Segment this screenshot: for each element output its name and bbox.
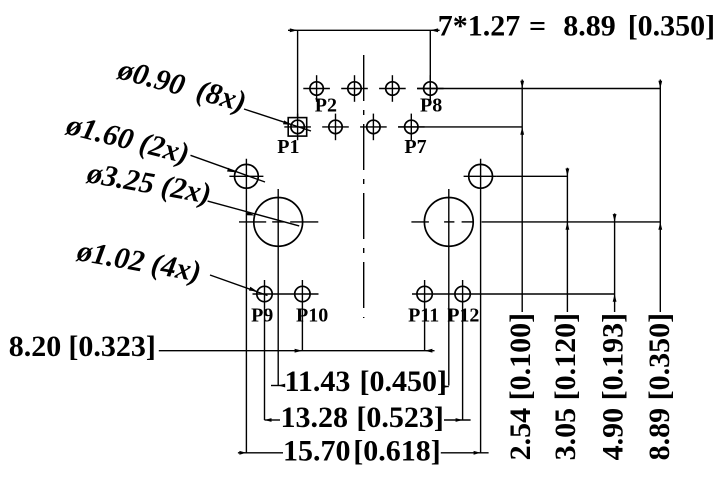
svg-text:13.28: 13.28 xyxy=(281,401,349,434)
svg-text:8.20: 8.20 xyxy=(9,330,62,363)
extension line P11 column xyxy=(424,308,426,351)
extension line right 1.60 column xyxy=(480,159,482,453)
extension line P8 column xyxy=(429,30,431,102)
dim 13.28 right arrow xyxy=(456,418,463,422)
svg-text:ø1.02 (4x): ø1.02 (4x) xyxy=(74,234,204,288)
svg-text:P7: P7 xyxy=(404,136,426,158)
leader 0.90 to P1 xyxy=(244,109,311,131)
pin P9 hole xyxy=(257,286,272,301)
hole 3.25 left xyxy=(254,198,303,247)
extension line from P8 row xyxy=(417,88,660,90)
dim 15.70 left stub xyxy=(238,452,283,454)
dim 2.54 vertical line xyxy=(521,80,523,313)
hole 3.25 right xyxy=(424,198,473,247)
svg-text:ø1.60 (2x): ø1.60 (2x) xyxy=(62,108,192,170)
leader 1.60 to left hole xyxy=(191,155,266,182)
centerline (vertical dash-dot) xyxy=(363,55,365,318)
svg-text:15.70: 15.70 xyxy=(283,435,351,468)
dim 11.43 left arrow xyxy=(278,384,285,388)
dim 15.70 left arrow xyxy=(239,451,246,455)
svg-text:8.89: 8.89 xyxy=(563,9,616,42)
P11-P12 row extension line xyxy=(412,293,615,295)
svg-text:=: = xyxy=(529,9,546,42)
extension line right 3.25 column xyxy=(448,189,450,386)
svg-text:11.43: 11.43 xyxy=(285,365,351,398)
pin P2 hole xyxy=(310,82,323,95)
P9-P10 crosshair line xyxy=(253,293,319,295)
svg-text:[0.323]: [0.323] xyxy=(68,330,155,363)
svg-text:3.05 [0.120]: 3.05 [0.120] xyxy=(549,313,582,460)
pin P4 hole xyxy=(348,82,361,95)
pin P8 hole xyxy=(424,82,437,95)
extension line left 3.25 column xyxy=(277,189,279,386)
svg-text:[0.523]: [0.523] xyxy=(356,401,443,434)
dim 7*1.27 left arrow xyxy=(290,28,298,32)
svg-text:ø0.90 (8x): ø0.90 (8x) xyxy=(114,53,250,119)
dim 15.70 right stub xyxy=(441,452,489,454)
dim 7*1.27=8.89 line xyxy=(288,29,440,31)
dim 4.90 vertical line xyxy=(614,213,616,312)
pin P12 hole xyxy=(455,286,470,301)
dim 3.05 vertical line xyxy=(566,168,568,312)
svg-text:P8: P8 xyxy=(420,94,442,116)
dim 2.54 arrows xyxy=(520,81,524,89)
dim 8.89 vertical line xyxy=(659,80,661,313)
extension line from P7 row xyxy=(398,126,522,128)
svg-text:ø3.25 (2x): ø3.25 (2x) xyxy=(84,156,214,210)
dim 11.43 right stub xyxy=(444,386,449,388)
dim 13.28 left arrow xyxy=(265,418,272,422)
svg-text:4.90 [0.193]: 4.90 [0.193] xyxy=(596,313,629,460)
dim 8.20 left arrow xyxy=(295,349,303,353)
extension line P10 column xyxy=(301,308,303,351)
svg-text:[0.350]: [0.350] xyxy=(628,9,715,42)
svg-text:P1: P1 xyxy=(277,136,299,158)
dim 13.28 right stub xyxy=(444,419,471,421)
svg-text:7*1.27: 7*1.27 xyxy=(438,9,521,42)
extension line from right 1.60 row xyxy=(497,175,568,177)
svg-text:8.89 [0.350]: 8.89 [0.350] xyxy=(643,313,676,460)
pin P3 hole xyxy=(329,120,342,133)
dim 11.43 left stub xyxy=(271,385,284,387)
extension line P1 column xyxy=(297,30,299,118)
extension line P9 column xyxy=(264,308,266,420)
pin P1 square pad xyxy=(288,118,307,137)
dim 13.28 left stub xyxy=(265,419,281,421)
extension line from right 3.25 row xyxy=(482,221,661,223)
extension line P12 column xyxy=(462,308,464,420)
svg-text:P12: P12 xyxy=(447,305,479,327)
hole 1.60 right xyxy=(469,164,493,188)
dim 15.70 right arrow xyxy=(474,451,481,455)
pin P11 hole xyxy=(417,286,432,301)
hole 1.60 left xyxy=(235,164,259,188)
dim 4.90 arrows xyxy=(613,214,617,222)
dim 8.89 arrows xyxy=(658,81,662,89)
svg-text:2.54 [0.100]: 2.54 [0.100] xyxy=(504,313,537,460)
svg-text:P10: P10 xyxy=(296,305,328,327)
svg-text:[0.450]: [0.450] xyxy=(360,365,447,398)
extension line left 1.60 column xyxy=(245,159,247,453)
svg-text:P11: P11 xyxy=(408,305,439,327)
svg-text:P9: P9 xyxy=(251,305,273,327)
pin P7 hole xyxy=(405,120,418,133)
leader 3.25 to left hole xyxy=(208,201,300,226)
svg-text:[0.618]: [0.618] xyxy=(353,435,440,468)
dim 8.20 right arrow xyxy=(425,349,433,353)
pin P5 hole xyxy=(367,120,380,133)
dim 8.20 line xyxy=(159,350,435,352)
dim 7*1.27 right arrow xyxy=(430,28,438,32)
svg-text:P2: P2 xyxy=(315,94,337,116)
pin P6 hole xyxy=(386,82,399,95)
dim 3.05 arrows xyxy=(566,169,570,177)
pin P1 hole xyxy=(291,120,304,133)
pin P10 hole xyxy=(295,286,310,301)
leader 1.02 to P9 xyxy=(210,275,268,296)
dim 11.43 right arrow xyxy=(442,385,449,389)
